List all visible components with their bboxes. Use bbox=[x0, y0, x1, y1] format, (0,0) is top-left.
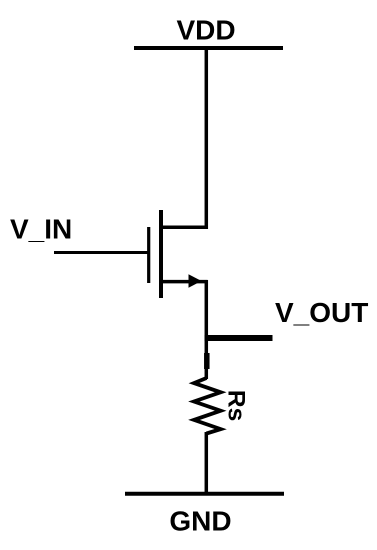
source arrow bbox=[189, 274, 202, 288]
VDD power rail bbox=[134, 46, 283, 50]
svg-text:V_OUT: V_OUT bbox=[275, 297, 368, 328]
wire: source down to output node bbox=[205, 280, 209, 379]
resistor Rs bbox=[194, 378, 221, 434]
svg-text:GND: GND bbox=[169, 506, 231, 537]
wire: source horizontal bbox=[161, 280, 208, 284]
svg-text:V_IN: V_IN bbox=[10, 214, 72, 245]
wire: resistor to ground bbox=[205, 432, 209, 495]
junction segment bbox=[204, 353, 210, 369]
wire: drain horizontal bbox=[160, 226, 208, 230]
wire: VDD rail to drain bbox=[205, 48, 209, 229]
ground rail bbox=[125, 492, 284, 496]
svg-text:VDD: VDD bbox=[176, 15, 235, 46]
node V_OUT tap bbox=[205, 335, 273, 341]
wire: gate bbox=[54, 251, 148, 254]
transistor M1 (NMOS, source follower) bbox=[149, 210, 161, 298]
svg-text:Rs: Rs bbox=[222, 390, 249, 421]
